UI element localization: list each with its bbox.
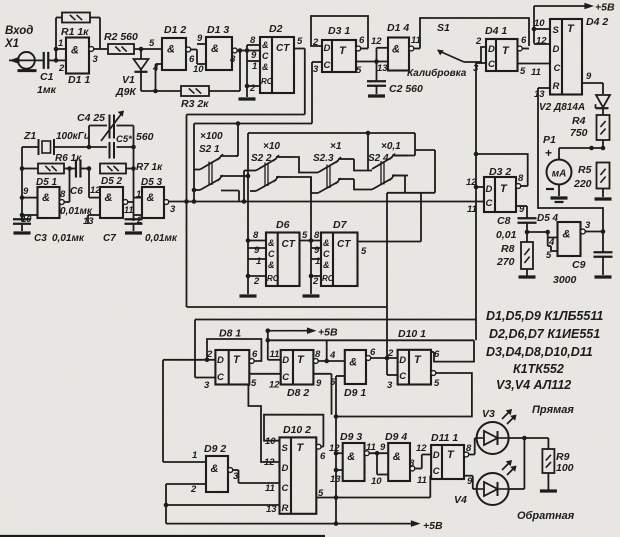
svg-text:RO: RO xyxy=(322,274,335,283)
svg-text:S2 4: S2 4 xyxy=(368,153,389,164)
label x10 S2.2 xyxy=(251,141,280,164)
gate D9.4 xyxy=(371,431,415,487)
wire D7 output 5 xyxy=(358,242,422,258)
variable capacitor C4 xyxy=(89,111,134,148)
label x1 S2.3 xyxy=(313,141,342,164)
svg-text:1мк: 1мк xyxy=(37,84,57,96)
resistor R5 xyxy=(597,163,610,198)
svg-text:&: & xyxy=(167,43,175,55)
svg-text:2: 2 xyxy=(249,83,256,94)
svg-text:9: 9 xyxy=(519,204,525,215)
svg-text:8: 8 xyxy=(230,54,236,65)
wire D9.2 output to D10.2 C xyxy=(233,470,280,483)
flip-flop D4.1 xyxy=(473,25,550,77)
svg-text:0,01мк: 0,01мк xyxy=(145,233,178,244)
label C5* 560 xyxy=(116,131,154,145)
wire D11.1 pin 9 to V4 xyxy=(464,476,477,489)
LED V3 xyxy=(477,409,517,454)
svg-text:R8: R8 xyxy=(501,243,515,255)
svg-text:D5 3: D5 3 xyxy=(141,177,163,188)
wire D8.2 pin 9 down xyxy=(313,374,331,415)
resistor R9 xyxy=(542,438,554,490)
svg-text:D: D xyxy=(488,44,495,55)
capacitor C7 xyxy=(125,219,143,231)
ground under R9 xyxy=(540,489,557,492)
wire D3.1 pin3 zigzag to crossover line xyxy=(311,62,313,124)
svg-text:5: 5 xyxy=(297,36,303,47)
svg-text:D9 1: D9 1 xyxy=(344,387,366,399)
svg-text:2: 2 xyxy=(387,348,394,359)
gate D1.4 xyxy=(371,22,421,74)
svg-text:C: C xyxy=(282,483,289,494)
svg-text:C: C xyxy=(282,372,289,383)
svg-text:9: 9 xyxy=(197,33,203,44)
wire gate box bottom xyxy=(187,306,388,308)
svg-text:C: C xyxy=(488,59,495,70)
svg-text:1: 1 xyxy=(58,38,63,49)
switch S2.2 x10 xyxy=(244,155,292,202)
svg-text:D9 4: D9 4 xyxy=(385,431,407,443)
svg-text:Z1: Z1 xyxy=(23,130,36,142)
svg-text:2: 2 xyxy=(190,484,197,495)
switch S1 Калибровка xyxy=(420,18,529,62)
wire vertical to rail xyxy=(334,376,339,526)
wire gate bus top xyxy=(187,114,305,116)
svg-text:D3 1: D3 1 xyxy=(328,25,350,37)
svg-text:C8: C8 xyxy=(497,215,511,227)
svg-text:3: 3 xyxy=(313,64,319,75)
svg-text:2: 2 xyxy=(253,276,260,287)
svg-text:5: 5 xyxy=(520,66,526,77)
gate D1.3 xyxy=(193,24,260,75)
svg-text:3: 3 xyxy=(585,220,591,231)
svg-text:V3: V3 xyxy=(482,408,495,420)
node meter rail xyxy=(559,146,605,151)
gate D5.2 xyxy=(83,176,134,227)
svg-text:8: 8 xyxy=(466,443,472,454)
capacitor C2 xyxy=(367,59,386,94)
svg-text:&: & xyxy=(392,43,400,55)
svg-text:5: 5 xyxy=(356,65,362,76)
resistor R7 xyxy=(100,164,136,174)
svg-text:V4: V4 xyxy=(454,494,467,506)
flip-flop D8.1 xyxy=(204,328,258,392)
svg-text:5: 5 xyxy=(302,230,308,241)
svg-text:R6 1к: R6 1к xyxy=(55,153,82,164)
svg-text:C: C xyxy=(268,249,275,259)
flip-flop D11.1 xyxy=(416,432,473,487)
svg-text:9: 9 xyxy=(380,442,386,453)
svg-text:C: C xyxy=(323,249,330,259)
svg-text:D7: D7 xyxy=(333,219,348,231)
svg-text:D10 1: D10 1 xyxy=(398,328,426,340)
svg-text:&: & xyxy=(563,228,571,240)
svg-text:CT: CT xyxy=(337,239,351,250)
wire D11.1 pin 8 to V3 xyxy=(469,438,477,455)
wire D8.2 output 8 loop and to D9.1 xyxy=(318,340,345,363)
label C7 0,01мк xyxy=(103,233,178,244)
wire D10.2 S feedback loop xyxy=(264,415,323,447)
svg-text:мА: мА xyxy=(552,169,567,180)
svg-text:6: 6 xyxy=(370,347,376,358)
flip-flop D3.1 xyxy=(312,25,388,76)
ground under R8 xyxy=(519,275,536,278)
switch S2.4 x0,1 xyxy=(372,157,393,169)
svg-text:S1: S1 xyxy=(437,22,450,34)
svg-text:13: 13 xyxy=(330,474,341,485)
wire left rail xyxy=(20,147,25,221)
wire D1.2 feedback to R3 xyxy=(155,64,157,91)
label R9 100 xyxy=(556,451,574,474)
svg-text:4: 4 xyxy=(329,350,336,361)
resistor R1 xyxy=(54,13,100,61)
wire left feedback vertical xyxy=(163,360,207,462)
svg-text:C: C xyxy=(486,198,493,209)
svg-text:Д9К: Д9К xyxy=(115,86,137,98)
svg-text:D: D xyxy=(433,450,440,461)
svg-text:12: 12 xyxy=(416,443,427,454)
wire D10.1 output 5 loop down xyxy=(336,371,472,417)
svg-text:5: 5 xyxy=(546,250,552,261)
svg-text:10: 10 xyxy=(534,18,545,29)
gate D1.2 xyxy=(149,24,197,74)
wire D2 output 5 down to gate line xyxy=(294,36,305,115)
wire D9.1 output to D10.1 xyxy=(371,357,398,359)
svg-text:D3,D4,D8,D10,D11: D3,D4,D8,D10,D11 xyxy=(486,345,593,359)
svg-text:C: C xyxy=(399,371,406,382)
svg-text:+: + xyxy=(545,146,552,160)
gate D9.3 xyxy=(329,431,376,485)
svg-text:D: D xyxy=(399,355,406,366)
svg-text:R3 2к: R3 2к xyxy=(181,98,209,110)
svg-text:100кГц: 100кГц xyxy=(56,131,90,142)
svg-text:&: & xyxy=(268,238,275,248)
svg-text:3000: 3000 xyxy=(553,274,577,286)
svg-text:D: D xyxy=(217,355,224,366)
svg-text:9: 9 xyxy=(23,186,29,197)
gate D9.1 xyxy=(329,347,376,399)
svg-text:CT: CT xyxy=(276,43,290,54)
ground under C9 xyxy=(595,275,612,278)
svg-text:P1: P1 xyxy=(543,134,556,146)
svg-text:5: 5 xyxy=(149,38,155,49)
svg-text:D9 2: D9 2 xyxy=(204,443,226,455)
svg-text:D: D xyxy=(282,355,289,366)
svg-text:9: 9 xyxy=(251,50,257,61)
wire D8.1 output 5 to D8.2 xyxy=(249,373,280,375)
svg-text:&: & xyxy=(393,451,401,463)
svg-text:S2 1: S2 1 xyxy=(199,144,220,155)
svg-text:D8 1: D8 1 xyxy=(219,328,241,340)
svg-text:C2 560: C2 560 xyxy=(389,83,423,95)
svg-text:D9 3: D9 3 xyxy=(340,431,362,443)
label V1 Д9К xyxy=(115,74,137,98)
svg-text:Прямая: Прямая xyxy=(532,404,574,416)
wire riser to D10.1 xyxy=(386,193,388,375)
wire D9.4 output to D11.1 D xyxy=(415,455,431,469)
meter P1 xyxy=(543,134,572,196)
parts list text xyxy=(486,309,603,392)
wire D3.2 output 8 loop to bus xyxy=(474,152,528,186)
ground under P1 xyxy=(551,196,568,199)
svg-text:S2.3: S2.3 xyxy=(313,153,334,164)
svg-text:9: 9 xyxy=(316,378,322,389)
wire switch crossover b xyxy=(192,121,312,201)
svg-text:Вход: Вход xyxy=(5,25,33,37)
svg-text:R4: R4 xyxy=(572,115,586,127)
svg-text:&: & xyxy=(147,192,155,204)
svg-text:&: & xyxy=(262,62,269,72)
gate D5.1 xyxy=(21,177,70,225)
svg-text:C4 25: C4 25 xyxy=(77,112,105,124)
svg-text:+5В: +5В xyxy=(595,2,615,14)
svg-text:×1: ×1 xyxy=(330,141,342,152)
svg-text:3: 3 xyxy=(93,54,99,65)
svg-text:R1 1к: R1 1к xyxy=(61,26,89,38)
svg-text:8: 8 xyxy=(250,35,256,46)
svg-text:D4 2: D4 2 xyxy=(586,16,608,28)
svg-text:V2 Д814А: V2 Д814А xyxy=(539,102,585,113)
wire gate box left xyxy=(184,115,189,308)
svg-text:D3 2: D3 2 xyxy=(489,166,511,178)
label C8 0,01 xyxy=(496,215,517,241)
svg-text:11: 11 xyxy=(531,67,541,78)
wire D4.2 output 9 xyxy=(582,83,603,94)
svg-text:S: S xyxy=(553,25,560,36)
svg-text:RO: RO xyxy=(261,77,274,86)
svg-text:6: 6 xyxy=(320,451,326,462)
wire horizontal feedback line xyxy=(266,338,475,343)
ground under D7 xyxy=(303,294,320,297)
svg-text:D10 2: D10 2 xyxy=(283,424,311,436)
svg-text:D8 2: D8 2 xyxy=(287,387,309,399)
diode V1 xyxy=(134,49,149,91)
wire S2.3 to S2.4 steps xyxy=(354,159,372,190)
resistor R3 xyxy=(141,48,242,96)
gate D9.2 xyxy=(163,443,239,495)
svg-text:3: 3 xyxy=(387,380,393,391)
label C6 0,01мк xyxy=(60,186,93,217)
svg-text:C3: C3 xyxy=(34,233,47,244)
svg-text:10: 10 xyxy=(371,476,382,487)
svg-text:3: 3 xyxy=(204,380,210,391)
svg-text:R: R xyxy=(282,503,289,514)
svg-text:C: C xyxy=(554,63,561,74)
svg-text:C1: C1 xyxy=(40,71,54,83)
scan edge artifact bottom xyxy=(0,535,325,537)
svg-text:8: 8 xyxy=(409,458,415,469)
ground under R5 xyxy=(595,197,612,200)
svg-text:3: 3 xyxy=(170,204,176,215)
svg-text:1: 1 xyxy=(256,256,261,267)
wire D8.1 feedback loop xyxy=(207,339,261,361)
svg-text:100: 100 xyxy=(556,462,574,474)
svg-text:&: & xyxy=(323,260,330,270)
svg-text:R2 560: R2 560 xyxy=(104,31,138,43)
zener V2 Д814А xyxy=(596,95,611,115)
+5V supply arrow top xyxy=(532,2,615,45)
LED V4 xyxy=(477,460,517,505)
counter D2 xyxy=(245,23,294,97)
svg-text:11: 11 xyxy=(270,349,280,360)
svg-text:9: 9 xyxy=(254,245,260,256)
svg-text:D5 4: D5 4 xyxy=(537,213,559,224)
svg-text:+5В: +5В xyxy=(423,520,443,532)
svg-text:D6: D6 xyxy=(276,219,290,231)
svg-text:750: 750 xyxy=(570,127,588,139)
wire LED common node xyxy=(509,436,549,489)
svg-text:D: D xyxy=(324,43,331,54)
svg-text:RO: RO xyxy=(267,274,280,283)
+5V supply arrow middle xyxy=(266,327,338,360)
svg-text:4: 4 xyxy=(548,237,555,248)
label C1 1мк xyxy=(37,71,57,96)
svg-text:2: 2 xyxy=(312,276,319,287)
capacitor C8 xyxy=(518,206,537,234)
ground under D2 xyxy=(239,97,256,100)
svg-text:10: 10 xyxy=(193,64,204,75)
svg-text:CT: CT xyxy=(282,239,296,250)
svg-text:5: 5 xyxy=(361,246,367,257)
resistor R6 xyxy=(22,164,72,174)
svg-text:R5: R5 xyxy=(578,164,592,176)
svg-text:Калибровка: Калибровка xyxy=(407,67,467,79)
svg-text:&: & xyxy=(211,463,219,475)
label x100 S2.1 xyxy=(199,131,223,155)
wire C8 node to D5.4 xyxy=(527,230,558,251)
resistor R4 xyxy=(597,115,610,148)
label R4 750 xyxy=(570,115,588,139)
svg-text:C: C xyxy=(217,372,224,383)
svg-text:D: D xyxy=(553,44,560,55)
svg-text:1: 1 xyxy=(252,61,257,72)
svg-text:12: 12 xyxy=(536,36,547,47)
svg-text:2: 2 xyxy=(58,63,65,74)
svg-text:12: 12 xyxy=(90,185,101,196)
svg-text:5: 5 xyxy=(434,378,440,389)
switch S2.3 x1 xyxy=(318,161,339,173)
svg-text:11: 11 xyxy=(124,205,133,215)
capacitor C1 xyxy=(44,52,59,69)
wire S2.4 upper contact riser xyxy=(392,133,435,193)
wire D10.2 R from left xyxy=(164,503,280,508)
svg-text:6: 6 xyxy=(359,35,365,46)
svg-text:8: 8 xyxy=(60,189,66,200)
svg-text:1: 1 xyxy=(136,189,141,200)
svg-text:12: 12 xyxy=(329,443,340,454)
svg-text:D2: D2 xyxy=(269,23,283,35)
svg-text:D2,D6,D7 К1ИЕ551: D2,D6,D7 К1ИЕ551 xyxy=(489,327,600,341)
svg-text:R: R xyxy=(553,81,560,92)
svg-text:R7 1к: R7 1к xyxy=(136,162,163,173)
svg-text:D5 1: D5 1 xyxy=(36,177,58,188)
label C3 0,01мк xyxy=(34,233,85,244)
svg-text:9: 9 xyxy=(586,71,592,82)
svg-text:S2 2: S2 2 xyxy=(251,153,272,164)
ground under C3 xyxy=(14,231,31,234)
svg-text:&: & xyxy=(211,43,219,55)
svg-text:V1: V1 xyxy=(122,74,135,86)
svg-text:11: 11 xyxy=(366,442,376,453)
svg-text:D1 4: D1 4 xyxy=(387,22,409,34)
svg-text:12: 12 xyxy=(264,457,275,468)
svg-text:C9: C9 xyxy=(572,259,586,271)
flip-flop D8.2 xyxy=(268,349,322,399)
label Z1 100кГц xyxy=(23,130,90,142)
svg-text:8: 8 xyxy=(253,230,259,241)
svg-text:C: C xyxy=(262,51,269,61)
svg-text:V3,V4 АЛ112: V3,V4 АЛ112 xyxy=(496,378,571,392)
svg-text:13: 13 xyxy=(534,89,545,100)
wire switch line c xyxy=(248,131,415,171)
svg-text:×100: ×100 xyxy=(200,131,223,142)
capacitor C3 xyxy=(13,215,31,231)
wire common line to D3.2 xyxy=(169,199,484,204)
ground under D6 xyxy=(240,294,257,297)
svg-text:13: 13 xyxy=(83,216,94,227)
svg-text:&: & xyxy=(105,192,113,204)
svg-text:2: 2 xyxy=(475,36,482,47)
svg-text:9: 9 xyxy=(314,245,320,256)
svg-text:0,01мк: 0,01мк xyxy=(52,233,85,244)
label C9 3000 xyxy=(553,259,586,286)
svg-text:&: & xyxy=(347,451,355,463)
label R8 270 xyxy=(496,243,515,268)
ground under C7 xyxy=(125,231,142,234)
svg-text:C7: C7 xyxy=(103,233,116,244)
svg-text:+5В: +5В xyxy=(318,327,338,339)
svg-text:X1: X1 xyxy=(4,38,19,50)
wire D6 output 5 xyxy=(300,230,322,243)
svg-text:0,01: 0,01 xyxy=(496,229,517,241)
svg-text:Обратная: Обратная xyxy=(517,510,575,522)
svg-text:11: 11 xyxy=(265,483,275,494)
svg-text:&: & xyxy=(323,238,330,248)
flip-flop D4.2 xyxy=(531,16,608,100)
ground under C2 xyxy=(368,94,385,97)
svg-text:D11 1: D11 1 xyxy=(431,432,458,444)
label x0,1 S2.4 xyxy=(368,141,401,164)
svg-text:C5*: C5* xyxy=(116,134,133,145)
capacitor C5* xyxy=(87,126,136,169)
wire D9.3 output to D9.4 xyxy=(369,451,388,475)
resistor R2 xyxy=(108,44,162,54)
svg-text:&: & xyxy=(71,45,79,57)
svg-text:11: 11 xyxy=(417,475,427,486)
label R5 220 xyxy=(573,164,592,190)
svg-text:6: 6 xyxy=(252,349,258,360)
svg-text:C6: C6 xyxy=(70,186,83,197)
main vertical bus xyxy=(475,63,477,340)
svg-text:D: D xyxy=(486,184,493,195)
switch S2.1 x100 xyxy=(194,154,239,202)
svg-text:D1 2: D1 2 xyxy=(164,24,186,36)
wire D9.2 pin2 from rail xyxy=(165,484,167,524)
gate D5.3 xyxy=(134,169,177,227)
wire D8.1 pin5 to D10.2 D zigzag xyxy=(248,385,279,463)
flip-flop D10.2 xyxy=(264,424,326,515)
svg-text:560: 560 xyxy=(136,131,154,143)
wire D4.2 R to D5.4 output node xyxy=(538,88,603,232)
svg-text:270: 270 xyxy=(496,256,515,268)
wire bottom section top rail xyxy=(195,320,476,378)
svg-text:8: 8 xyxy=(518,173,524,184)
gate D1.1 xyxy=(56,38,108,87)
flip-flop D10.1 xyxy=(385,328,440,391)
svg-text:D1 1: D1 1 xyxy=(68,74,90,86)
svg-text:C: C xyxy=(324,60,331,71)
wire S2.4 lower step to D7 output xyxy=(387,176,435,242)
